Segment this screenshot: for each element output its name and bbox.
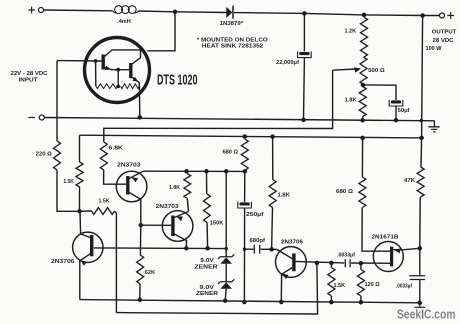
wire +28 rail (80, 135, 422, 138)
node 1.5K br top (329, 261, 334, 266)
transistor Q2 emitter lead (132, 77, 139, 83)
wire Q2 base to resistor node (117, 70, 119, 87)
svg-text:120 Ω: 120 Ω (365, 282, 380, 288)
wire 1.8K to ground bus (362, 117, 364, 121)
node ground rail crossing (420, 119, 423, 122)
label 1.5K bottom-right (334, 283, 346, 289)
node 1.8K right top on +28 rail (270, 134, 275, 139)
label .0033uf horizontal (337, 253, 355, 259)
label 22,000uf (276, 60, 299, 66)
diode 1N3879 (226, 6, 233, 19)
wire Q5 emitter down (79, 261, 81, 300)
wire cap to 120 ohm node (351, 262, 378, 264)
node 120 ohm top (359, 261, 364, 266)
node pot bottom junction (361, 83, 366, 88)
label .4mH (117, 19, 131, 25)
node B junction 22000uf tap (302, 11, 307, 16)
transistor Q3 emitter lead (129, 171, 143, 182)
wire Q5 base bus (94, 247, 227, 250)
wire 150K top (206, 171, 208, 194)
wire 1.8K mid to Q4 emitter (187, 199, 188, 212)
label 6.8K (109, 146, 124, 152)
wire 150K to base bus (206, 223, 209, 249)
svg-text:680 Ω: 680 Ω (336, 189, 353, 195)
label .0033uf vertical (396, 283, 412, 289)
transistor Q6 base bar (292, 253, 295, 271)
resistor 680 ohm right (359, 177, 366, 208)
node 150K top (204, 169, 209, 174)
DTS 1020 outline circle (85, 38, 150, 103)
zener diode 1 9.0V (218, 254, 234, 263)
node Q6 base junction (269, 247, 274, 252)
svg-text:INPUT: INPUT (19, 77, 39, 83)
wire Q3 emitter rail (143, 170, 245, 172)
svg-text:2N1671B: 2N1671B (372, 234, 399, 240)
wire 220ohm to bias node (57, 170, 80, 211)
wire 680ohm right to UJT (362, 208, 390, 252)
wire 1.8K right to 680pf node (271, 208, 274, 250)
svg-text:62K: 62K (145, 270, 156, 276)
wire inductor to node A (139, 10, 176, 13)
svg-text:220 Ω: 220 Ω (36, 151, 52, 157)
transistor Q3 base bar (126, 176, 129, 195)
wire DTS base lead (57, 60, 102, 62)
transistor Q4 emitter lead (174, 212, 188, 222)
wire +28 rail to 680ohm right (361, 138, 363, 177)
node A junction (173, 10, 178, 15)
label mounted on delco heat sink (197, 38, 268, 50)
svg-text:OUTPUT: OUTPUT (432, 30, 457, 36)
node 1.8K on +28 rail (360, 136, 365, 141)
resistor 220 ohm (54, 141, 61, 170)
wire 6.8K to Q3 base (104, 170, 126, 184)
label 1.5K vertical (63, 179, 74, 185)
transistor Q1 collector lead (105, 50, 141, 64)
resistor DTS internal left (96, 84, 118, 89)
wire cap to bottom bus (419, 280, 421, 303)
transistor Q5 2N3706 circle (73, 232, 103, 262)
transistor Q3 2N3703 circle (116, 171, 147, 202)
label 250uf (246, 212, 264, 218)
label 1.2K (345, 29, 357, 35)
transistor Q4 base bar (171, 216, 174, 237)
svg-text:2N3706: 2N3706 (51, 259, 75, 265)
transistor Q5 collector lead (80, 211, 90, 237)
node 1.8K mid top (184, 169, 189, 174)
transistor Q7 emitter lead (393, 248, 420, 253)
resistor 1.5K horizontal (92, 208, 115, 215)
node Q1 base-resistor junction (94, 59, 98, 63)
output node junction (420, 13, 425, 18)
wire DTS base to left rail (56, 61, 58, 141)
resistor 1.8K right (269, 180, 276, 208)
node 120 ohm bottom (359, 300, 364, 305)
inductor .4mH (113, 6, 139, 14)
svg-text:1.8K: 1.8K (345, 98, 357, 104)
svg-text:100 W: 100 W (426, 46, 442, 52)
wire 47K to UJT node (419, 197, 421, 248)
wire node A to DTS collector (147, 12, 175, 51)
label 150K (210, 220, 224, 226)
resistor 1.8K mid wire (186, 171, 189, 173)
node feedback tap (315, 261, 320, 266)
wire 1.5K-h down to bottom bus B (115, 211, 117, 313)
transistor Q1 emitter lead (105, 66, 130, 71)
label 120 ohm (365, 282, 380, 288)
transistor Q1 base bar (102, 55, 105, 70)
transistor Q6 emitter lead (282, 268, 293, 280)
resistor 120 ohm (357, 270, 364, 297)
svg-text:500 Ω: 500 Ω (368, 68, 385, 74)
svg-text:.0033μf: .0033μf (396, 283, 412, 289)
resistor 1.5K vertical (76, 162, 83, 187)
ground stub bottom right (414, 303, 425, 308)
wire output rail down (422, 16, 423, 138)
capacitor 22000uf wire top (303, 13, 305, 51)
resistor 680 ohm mid (241, 139, 248, 170)
wire 680pf left (245, 248, 254, 250)
transistor Q6 base lead (272, 249, 293, 258)
node zener bottom on bus A (223, 298, 228, 303)
wire 50uf to ground bus (395, 106, 397, 120)
svg-text:2N3703: 2N3703 (156, 204, 179, 210)
svg-text:1.2K: 1.2K (345, 29, 357, 35)
wire zener2 to bottom bus (225, 289, 226, 301)
svg-text:1.5K: 1.5K (99, 198, 110, 204)
svg-text:250μf: 250μf (246, 212, 264, 218)
label 1.5K horizontal (99, 198, 110, 204)
node 680pf tap (243, 248, 246, 251)
wire DTS emitter out (138, 82, 141, 117)
svg-text:1.5K: 1.5K (334, 283, 346, 289)
resistor 120 ohm wire (360, 263, 362, 269)
transistor Q3 collector lead (129, 193, 141, 226)
svg-text:1.8K: 1.8K (169, 185, 180, 191)
wire Q3 collector down to 62K (139, 225, 141, 255)
wire node A to diode (175, 11, 227, 14)
zener diode 2 9.0V (218, 279, 234, 288)
transistor Q7 base bar (390, 247, 393, 267)
svg-text:ZENER: ZENER (196, 291, 218, 297)
transistor Q2 base bar (129, 63, 132, 78)
wire node C to output node (364, 14, 423, 17)
capacitor 50uf (389, 100, 403, 106)
node zener top on bus (225, 247, 228, 250)
capacitor 22,000uf (298, 51, 312, 57)
node UJT top junction (418, 246, 423, 251)
wire 1.5K br to bottom bus (330, 296, 332, 302)
node 50uf ground junction (394, 118, 399, 123)
capacitor 680pf (254, 245, 259, 254)
svg-text:680 Ω: 680 Ω (223, 150, 239, 156)
svg-text:9.0V: 9.0V (200, 285, 215, 291)
svg-text:1N3879*: 1N3879* (220, 21, 244, 27)
wire 62K to bottom bus (139, 284, 141, 300)
label 1.8K right (278, 193, 291, 199)
label zener2 9.0V ZENER (196, 285, 218, 297)
transistor Q5 base bar (90, 235, 93, 256)
pot wiper arrowhead (354, 67, 361, 72)
label 680 ohm right (336, 189, 353, 195)
wire zener column (225, 171, 227, 256)
transistor Q4 2N3703 circle (162, 211, 193, 242)
node DTS emitter-resistor junction (116, 68, 120, 89)
wire 22000uf to ground bus (303, 58, 306, 120)
svg-text:.0033μf: .0033μf (337, 253, 355, 259)
wire 1.8K right top (272, 137, 274, 180)
resistor DTS internal right (121, 84, 140, 89)
node zener column top (224, 169, 229, 174)
svg-text:150K: 150K (210, 220, 224, 226)
svg-text:28 VDC: 28 VDC (433, 38, 454, 44)
wire node B to node C (304, 13, 364, 15)
node 22000uf ground junction (301, 118, 306, 123)
svg-text:22V - 28 VDC: 22V - 28 VDC (11, 71, 48, 77)
capacitor 250uf (238, 202, 252, 208)
resistor 1.8K top-right (359, 87, 366, 117)
label Q5 2N3706 (51, 259, 75, 265)
resistor 1.2K (361, 17, 368, 57)
transistor Q4 collector lead (174, 234, 186, 248)
node Q3 collector junction (139, 223, 144, 228)
wire bottom bus A (80, 300, 420, 303)
wire Q3 collector to Q4 base (141, 224, 171, 226)
resistor 150K (204, 194, 211, 223)
svg-text:680pf: 680pf (250, 238, 266, 244)
label DTS 1020 (157, 73, 198, 89)
label zener1 9.0V ZENER (195, 258, 219, 270)
wire bias node to 1.5K horizontal (80, 210, 92, 212)
wire UJT base-one lead (378, 262, 390, 264)
svg-text:ZENER: ZENER (195, 264, 219, 270)
svg-text:2N3706: 2N3706 (281, 239, 303, 245)
wire UJT node to cap (419, 248, 421, 275)
wire wiper rail (104, 70, 333, 142)
resistor 1.5K bottom-right wire (330, 263, 332, 268)
transistor Q7 2N1671B circle (373, 242, 403, 272)
wire + input to inductor (44, 9, 113, 12)
wire 1.5K to bias node (79, 187, 81, 211)
label Q3 2N3703 (117, 162, 141, 168)
wire to output terminal (423, 15, 440, 17)
wire rail to 47K (420, 138, 423, 167)
label OUTPUT 28 VDC 100 W (426, 30, 458, 52)
transistor Q6 2N3706 circle (276, 247, 307, 278)
watermark SeekIC.com (397, 307, 456, 322)
label 680 ohm mid (223, 150, 239, 156)
node Q4 collector on bus (184, 246, 189, 251)
capacitor .0033uf vertical (409, 276, 425, 280)
resistor 1.5K bottom-right (328, 268, 335, 297)
input - terminal (28, 115, 44, 120)
transistor Q6 collector lead (295, 261, 344, 263)
node bus A right end (418, 301, 423, 306)
svg-text:1.8K: 1.8K (278, 193, 291, 199)
wire 250uf to bottom bus (243, 208, 245, 302)
potentiometer 500 ohm body (360, 57, 367, 85)
wire 120 ohm to bottom bus (360, 296, 362, 302)
wire ground bus (44, 118, 434, 121)
svg-text:9.0V: 9.0V (200, 258, 214, 264)
wire pot node to 50uf (363, 85, 396, 100)
svg-text:6.8K: 6.8K (109, 146, 124, 152)
node Q6 emitter on bus A (279, 300, 284, 305)
wire pot wiper arm (333, 69, 356, 70)
label 1.8K mid (169, 185, 180, 191)
label 1.8K top-right (345, 98, 357, 104)
svg-text:HEAT SINK 7281352: HEAT SINK 7281352 (202, 44, 264, 50)
svg-text:47K: 47K (404, 178, 415, 184)
node bias junction (77, 209, 82, 214)
label 50uf (398, 108, 410, 114)
resistor 47K (417, 167, 424, 197)
wire 250uf top (244, 171, 246, 202)
node DTS emitter on ground bus (138, 115, 143, 120)
wire 680pf right (261, 248, 272, 250)
node 680 mid bottom (243, 169, 248, 174)
input + terminal (28, 7, 43, 14)
svg-text:.4mH: .4mH (117, 19, 131, 25)
node 1.5K br bottom (329, 300, 334, 305)
label Q4 2N3703 (156, 204, 179, 210)
wire bottom bus B (116, 263, 317, 314)
resistor 1.8K mid (184, 174, 191, 199)
label 220 ohm (36, 151, 52, 157)
svg-text:SeekIC.com: SeekIC.com (397, 307, 456, 322)
output + terminal (440, 12, 455, 19)
node 150K on bus (205, 246, 210, 251)
resistor 62K (137, 255, 144, 284)
svg-text:DTS 1020: DTS 1020 (157, 73, 198, 89)
label 47K (404, 178, 415, 184)
node 250uf line on bus A (242, 300, 247, 305)
svg-text:2N3703: 2N3703 (117, 162, 141, 168)
node 680 mid top on +28 rail (243, 134, 248, 139)
svg-text:50μf: 50μf (398, 108, 410, 114)
ground symbol (428, 121, 439, 132)
label 22V-28VDC INPUT (11, 71, 48, 84)
label Q7 2N1671B (372, 234, 399, 240)
wire zener1 to zener2 (225, 264, 227, 282)
svg-text:22,000μf: 22,000μf (276, 60, 299, 66)
label Q6 2N3706 (281, 239, 303, 245)
label 62K (145, 270, 156, 276)
capacitor .0033uf horizontal (345, 259, 350, 267)
wire Q6 emitter down (280, 274, 282, 302)
wire +28 rail to 1.5K (79, 135, 81, 162)
transistor Q5 emitter lead (80, 254, 90, 266)
node 1.8K ground junction (360, 118, 365, 123)
resistor 6.8K (100, 142, 107, 170)
label 1N3879* (220, 21, 244, 27)
node 62K bottom (138, 298, 143, 303)
wire Q1 base to resistor (95, 61, 97, 86)
node output rail on +28 rail (419, 136, 424, 141)
node C junction 1.2K tap (362, 13, 367, 18)
svg-text:1.5K: 1.5K (63, 179, 74, 185)
label 680pf (250, 238, 266, 244)
label 500 ohm (368, 68, 385, 74)
wire diode to node B (234, 12, 304, 15)
